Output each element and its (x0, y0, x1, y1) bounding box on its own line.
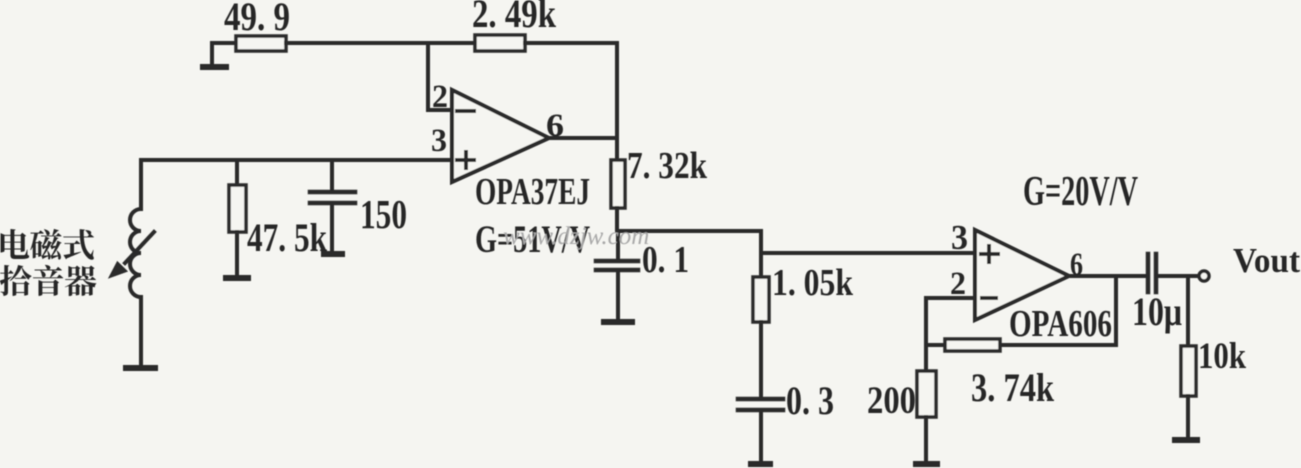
pickup coil L1 (130, 209, 141, 297)
svg-text:OPA606: OPA606 (1009, 303, 1112, 345)
op-amp U1 minus sign (457, 109, 474, 113)
capacitor C 0.1 (596, 231, 638, 318)
resistor R 47.5k (229, 160, 246, 275)
svg-text:6: 6 (546, 108, 564, 144)
svg-text:7. 32k: 7. 32k (627, 145, 708, 187)
wire stage1 out horizontal (617, 229, 761, 233)
ground (200) (916, 461, 937, 467)
op-amp U1 plus sign (457, 152, 474, 168)
wire 10k drop (1186, 276, 1190, 346)
svg-text:2: 2 (432, 79, 448, 115)
op-amp U2 OPA606 triangle (975, 230, 1069, 320)
svg-text:3: 3 (951, 218, 968, 257)
wire pin2 drop (924, 298, 928, 345)
ground (47.5k) (226, 275, 248, 281)
ground (0.3) (751, 461, 770, 467)
resistor R 49.9 (236, 36, 286, 51)
svg-text:10μ: 10μ (1132, 289, 1182, 334)
wire inverting input drop to pin 2 (428, 43, 451, 110)
pickup coil L1 top lead (139, 160, 143, 209)
wire feedback vertical U2 (1114, 276, 1118, 345)
resistor R 1.05k (753, 253, 769, 397)
svg-text:1. 05k: 1. 05k (772, 262, 854, 304)
label chinese pickup text 电磁式 (1, 229, 94, 260)
resistor R 7.32k (611, 138, 625, 231)
wire U2 output (1069, 274, 1146, 278)
wire U1 output (549, 136, 617, 140)
op-amp U1 OPA37EJ triangle (452, 90, 549, 182)
resistor R 3.74k (945, 339, 1000, 351)
op-amp U2 minus sign (982, 296, 996, 300)
svg-text:3: 3 (431, 123, 447, 159)
wire to U2 pin3 (761, 251, 974, 255)
svg-text:47. 5k: 47. 5k (247, 215, 328, 260)
wire 49.9 to 2.49k (286, 41, 475, 45)
ground (0.1) (604, 319, 632, 325)
wire ground to R 49.9 (212, 41, 236, 45)
svg-text:Vout: Vout (1233, 241, 1300, 280)
pickup coil L1 bottom lead (139, 297, 143, 365)
svg-text:6: 6 (1070, 247, 1083, 283)
ground (left of 49.9) (203, 43, 226, 67)
wire pin3 input bus (141, 158, 451, 162)
svg-text:0. 3: 0. 3 (786, 378, 834, 423)
svg-text:2: 2 (950, 266, 966, 302)
wire U2 pin2 (926, 296, 975, 300)
capacitor C 10u (1148, 254, 1198, 292)
capacitor C 150 (310, 160, 355, 251)
wire 2.49k to feedback corner (525, 41, 617, 45)
svg-text:49. 9: 49. 9 (224, 0, 290, 39)
svg-text:www.dzjw.com: www.dzjw.com (503, 223, 649, 250)
label chinese pickup text 拾音器 (0, 265, 96, 296)
pickup bottom terminal bar (126, 365, 155, 371)
svg-text:3. 74k: 3. 74k (971, 365, 1055, 410)
capacitor C 0.3 (738, 399, 783, 461)
svg-text:10k: 10k (1198, 336, 1246, 377)
svg-text:OPA37EJ: OPA37EJ (475, 171, 590, 213)
op-amp U2 plus sign (981, 246, 998, 262)
ground (150) (324, 251, 342, 257)
svg-text:G=20V/V: G=20V/V (1023, 169, 1138, 215)
resistor R 2.49k (475, 35, 525, 51)
svg-text:0. 1: 0. 1 (642, 239, 689, 281)
resistor R 10k (1181, 346, 1196, 437)
ground (10k) (1175, 437, 1197, 443)
pickup arrow (111, 232, 154, 276)
resistor R 200 (917, 345, 936, 461)
output terminal circle (1199, 271, 1209, 281)
wire feedback vertical into U1 output node (615, 43, 619, 138)
wire step down (759, 231, 763, 253)
svg-text:150: 150 (360, 191, 407, 237)
wire feedback U2 (926, 343, 1116, 347)
svg-text:2. 49k: 2. 49k (472, 0, 557, 36)
svg-text:200: 200 (867, 379, 916, 422)
